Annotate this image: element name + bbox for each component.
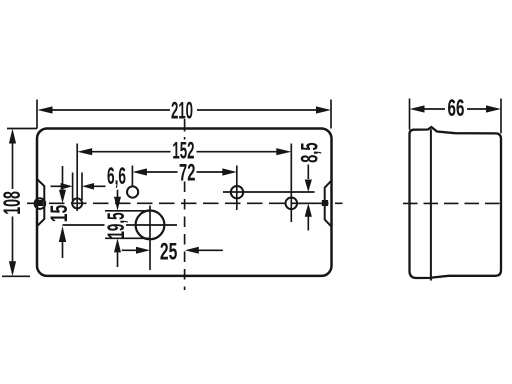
svg-text:108: 108 [0, 191, 26, 215]
svg-text:210: 210 [171, 97, 193, 124]
svg-text:19,5: 19,5 [103, 212, 130, 238]
svg-text:72: 72 [179, 160, 195, 187]
svg-text:6,6: 6,6 [107, 163, 126, 190]
svg-text:25: 25 [160, 238, 177, 265]
svg-text:66: 66 [448, 96, 465, 122]
svg-text:15: 15 [45, 205, 72, 222]
svg-text:8,5: 8,5 [297, 142, 324, 162]
